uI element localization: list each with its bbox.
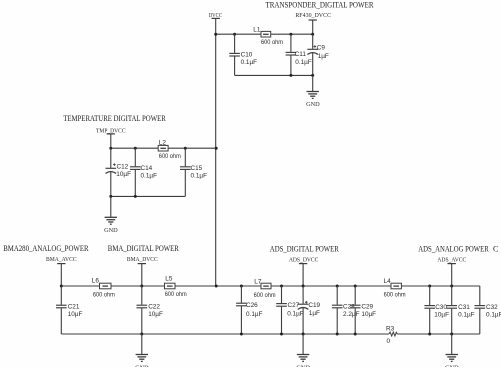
node main rail / C27 [280, 285, 283, 288]
svg-text:ADS_ANALOG POWER: ADS_ANALOG POWER [418, 244, 489, 253]
capacitor C14 0.1uF [130, 148, 157, 196]
node temp rail / C14 [134, 147, 137, 150]
capacitor C22 10uF [137, 286, 163, 334]
power symbol BMA_DVCC [138, 264, 146, 286]
capacitor C30 10uF [424, 286, 449, 334]
svg-text:600 ohm: 600 ohm [254, 292, 276, 299]
node bottom rail / C27 [280, 333, 283, 336]
wire main power rail [61, 285, 480, 287]
power symbol TMP_DVCC [107, 134, 115, 148]
svg-text:0.1µF: 0.1µF [141, 173, 158, 180]
svg-text:0.1µF: 0.1µF [191, 173, 208, 180]
svg-text:C19: C19 [308, 302, 320, 309]
wire temperature bottom rail [111, 195, 186, 197]
svg-text:C: C [493, 244, 498, 253]
capacitor C21 10uF [56, 286, 82, 334]
svg-text:C22: C22 [148, 304, 160, 311]
svg-text:10µF: 10µF [361, 311, 376, 318]
wire DVCC vertical trunk [215, 34, 217, 286]
node bottom rail / C29 [354, 333, 357, 336]
svg-text:10µF: 10µF [434, 311, 449, 318]
ground (ADS digital) [296, 355, 310, 372]
capacitor C31 0.1uF [446, 286, 474, 334]
node bottom rail / C31 / GND [450, 333, 453, 336]
svg-text:C9: C9 [317, 45, 326, 52]
svg-text:C31: C31 [458, 304, 470, 311]
svg-text:10µF: 10µF [148, 311, 163, 318]
wire bottom rail (transponder) [235, 74, 313, 76]
power symbol BMA_AVCC [57, 264, 65, 286]
node main rail / C30 [428, 285, 431, 288]
node temp rail / C15 [184, 147, 187, 150]
svg-text:0.1µF: 0.1µF [295, 59, 312, 66]
svg-text:0: 0 [387, 338, 391, 345]
svg-text:0.1µF: 0.1µF [287, 310, 304, 317]
inductor L7 600 ohm [254, 278, 276, 299]
svg-text:C12: C12 [117, 163, 129, 170]
svg-text:L4: L4 [384, 278, 392, 285]
svg-text:600 ohm: 600 ohm [384, 292, 406, 299]
node bottom rail / C19 / GND [302, 333, 305, 336]
svg-text:0.1µF: 0.1µF [241, 59, 258, 66]
node temp bottom rail / C14 [134, 195, 137, 198]
capacitor C12 10uF (polarized) [106, 148, 132, 196]
svg-text:BMA_DVCC: BMA_DVCC [127, 256, 158, 263]
svg-text:C15: C15 [191, 165, 203, 172]
svg-text:600 ohm: 600 ohm [165, 291, 187, 298]
svg-text:C10: C10 [241, 52, 253, 59]
svg-text:BMA_AVCC: BMA_AVCC [46, 256, 77, 263]
node main rail / C29 [354, 285, 357, 288]
node main rail / C21 [60, 285, 63, 288]
wire GND drop (BMA) [141, 334, 143, 355]
node bottom rail / C26 [240, 333, 243, 336]
power symbol RF430_DVCC [309, 20, 317, 34]
node top rail / C9 [311, 33, 314, 36]
capacitor C28 2.2uF [332, 286, 360, 334]
svg-text:L2: L2 [159, 139, 167, 146]
svg-text:0.1µF: 0.1µF [458, 311, 475, 318]
inductor L6 600 ohm [92, 277, 115, 298]
node top rail / C10 [233, 33, 236, 36]
power symbol ADS_DVCC [299, 264, 307, 286]
svg-text:L6: L6 [92, 277, 100, 284]
node temp rail / C12 [109, 147, 112, 150]
svg-text:0.1µF: 0.1µF [486, 311, 501, 318]
svg-text:10µF: 10µF [68, 311, 83, 318]
capacitor C29 10uF [350, 286, 376, 334]
ground (transponder) [306, 92, 320, 109]
node bottom rail / C22 / GND [140, 333, 143, 336]
svg-text:600 ohm: 600 ohm [93, 292, 115, 299]
capacitor C26 0.1uF [236, 286, 262, 334]
svg-text:1µF: 1µF [318, 53, 329, 60]
ground (ADS analog) [445, 355, 459, 372]
power symbol DVCC [212, 18, 220, 34]
node bottom rail / GND [311, 74, 314, 77]
svg-text:TRANSPONDER_DIGITAL POWER: TRANSPONDER_DIGITAL POWER [266, 1, 375, 10]
svg-text:L1: L1 [253, 26, 261, 33]
svg-text:2.2µF: 2.2µF [343, 311, 360, 318]
wire GND drop (temperature) [110, 196, 112, 217]
capacitor C9 1uF (polarized) [307, 34, 329, 75]
svg-text:C27: C27 [288, 302, 300, 309]
node main rail / C19 [302, 285, 305, 288]
node temp rail / DVCC trunk [215, 147, 218, 150]
wire bottom ground rail (left of R3) [61, 333, 389, 335]
node temp bottom rail / GND [109, 195, 112, 198]
capacitor C32 0.1uF [475, 286, 501, 334]
svg-text:GND: GND [104, 227, 118, 234]
svg-text:GND: GND [306, 101, 320, 108]
svg-text:L5: L5 [165, 276, 173, 283]
svg-text:C11: C11 [295, 51, 307, 58]
svg-text:BMA280_ANALOG_POWER: BMA280_ANALOG_POWER [3, 244, 89, 253]
svg-text:C29: C29 [361, 304, 373, 311]
svg-text:TEMPERATURE DIGITAL POWER: TEMPERATURE DIGITAL POWER [63, 114, 166, 123]
inductor L4 600 ohm [384, 278, 406, 299]
capacitor C15 0.1uF [180, 148, 207, 196]
ground (temperature) [104, 217, 118, 234]
inductor L2 600 ohm [158, 139, 181, 160]
node main rail / C26 [240, 285, 243, 288]
node main rail / C28 [336, 285, 339, 288]
capacitor C19 1uF (polarized) [298, 286, 321, 334]
svg-text:RF430_DVCC: RF430_DVCC [295, 12, 331, 19]
svg-text:C26: C26 [246, 302, 258, 309]
svg-text:C32: C32 [486, 304, 498, 311]
svg-text:10µF: 10µF [116, 171, 131, 178]
svg-text:ADS_AVCC: ADS_AVCC [437, 256, 466, 263]
svg-text:600 ohm: 600 ohm [159, 153, 181, 160]
node main rail / DVCC trunk [215, 285, 218, 288]
wire GND drop (transponder) [312, 75, 314, 91]
inductor L1 600 ohm [253, 26, 283, 46]
ground (BMA) [135, 355, 149, 372]
svg-text:C21: C21 [68, 304, 80, 311]
inductor L5 600 ohm [165, 276, 187, 298]
resistor R3 0 [389, 332, 397, 336]
svg-text:ADS_DVCC: ADS_DVCC [289, 256, 319, 263]
node bottom rail / C28 [336, 333, 339, 336]
power symbol ADS_AVCC [448, 264, 456, 286]
svg-text:1µF: 1µF [309, 310, 320, 317]
wire bottom ground rail (right of R3) [397, 333, 480, 335]
svg-text:ADS_DIGITAL POWER: ADS_DIGITAL POWER [270, 244, 340, 253]
svg-text:BMA_DIGITAL POWER: BMA_DIGITAL POWER [108, 244, 180, 253]
node top rail / C11 [289, 33, 292, 36]
svg-text:C14: C14 [141, 165, 153, 172]
wire GND drop (ADS digital) [302, 334, 304, 355]
svg-text:600 ohm: 600 ohm [261, 39, 283, 46]
svg-text:C30: C30 [435, 304, 447, 311]
capacitor C10 0.1uF [229, 34, 257, 75]
svg-text:R3: R3 [386, 325, 395, 332]
node main rail / C22 [140, 285, 143, 288]
node main rail / C31 [450, 285, 453, 288]
node bottom rail / C30 [428, 333, 431, 336]
node top rail / DVCC trunk [214, 33, 217, 36]
capacitor C27 0.1uF [276, 286, 304, 334]
wire top rail DVCC to L1 to RF430_DVCC [216, 33, 313, 35]
wire GND drop (ADS analog) [451, 334, 453, 355]
capacitor C11 0.1uF [286, 34, 312, 75]
svg-text:0.1µF: 0.1µF [246, 311, 263, 318]
svg-text:L7: L7 [254, 278, 262, 285]
node bottom rail / C11 [289, 74, 292, 77]
wire temperature top rail [111, 147, 216, 149]
